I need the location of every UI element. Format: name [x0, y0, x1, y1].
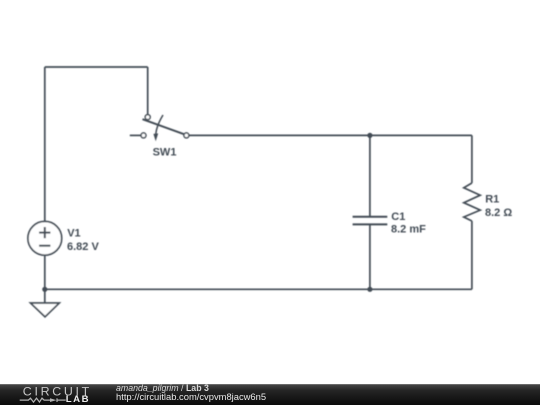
svg-text:8.2 Ω: 8.2 Ω: [485, 207, 512, 219]
wire top rail left: [45, 66, 148, 68]
node junction top of C1: [367, 133, 372, 138]
wire resistor bottom branch: [471, 221, 473, 289]
SW1 throw arm: [143, 119, 185, 134]
wire V1 bottom: [44, 256, 46, 289]
svg-text:C1: C1: [391, 211, 405, 223]
SW1 actuation arrow: [156, 115, 163, 134]
SW1 left throw terminal circle: [141, 133, 146, 138]
wire ground stem: [44, 289, 46, 303]
svg-text:LAB: LAB: [66, 394, 91, 405]
svg-text:8.2 mF: 8.2 mF: [391, 224, 426, 236]
switch SW1: [130, 115, 189, 142]
svg-text:R1: R1: [485, 194, 499, 206]
svg-text:V1: V1: [67, 228, 80, 240]
node junction ground: [42, 287, 47, 292]
svg-text:6.82 V: 6.82 V: [67, 241, 99, 253]
wire capacitor bottom branch: [369, 224, 371, 289]
resistor R1: [464, 183, 480, 221]
wire top rail right from switch to resistor: [189, 134, 472, 136]
svg-text:SW1: SW1: [153, 146, 177, 158]
wire down to switch common: [147, 67, 149, 115]
wire capacitor top branch: [369, 135, 371, 216]
SW1 left throw stub wire: [130, 134, 141, 136]
svg-text:http://circuitlab.com/cvpvm8ja: http://circuitlab.com/cvpvm8jacw6n5: [116, 391, 266, 402]
wire V1 top to top-left corner: [44, 67, 46, 221]
voltage source V1: [28, 221, 62, 255]
SW1 common terminal circle: [145, 115, 150, 120]
ground: [31, 303, 60, 317]
wire resistor top branch: [471, 135, 473, 183]
CircuitLab logo resistor-diode squiggle: [20, 398, 66, 402]
node junction bottom of C1: [367, 287, 372, 292]
SW1 right throw terminal circle: [184, 133, 189, 138]
wire bottom rail: [45, 288, 472, 290]
capacitor C1: [353, 217, 388, 225]
